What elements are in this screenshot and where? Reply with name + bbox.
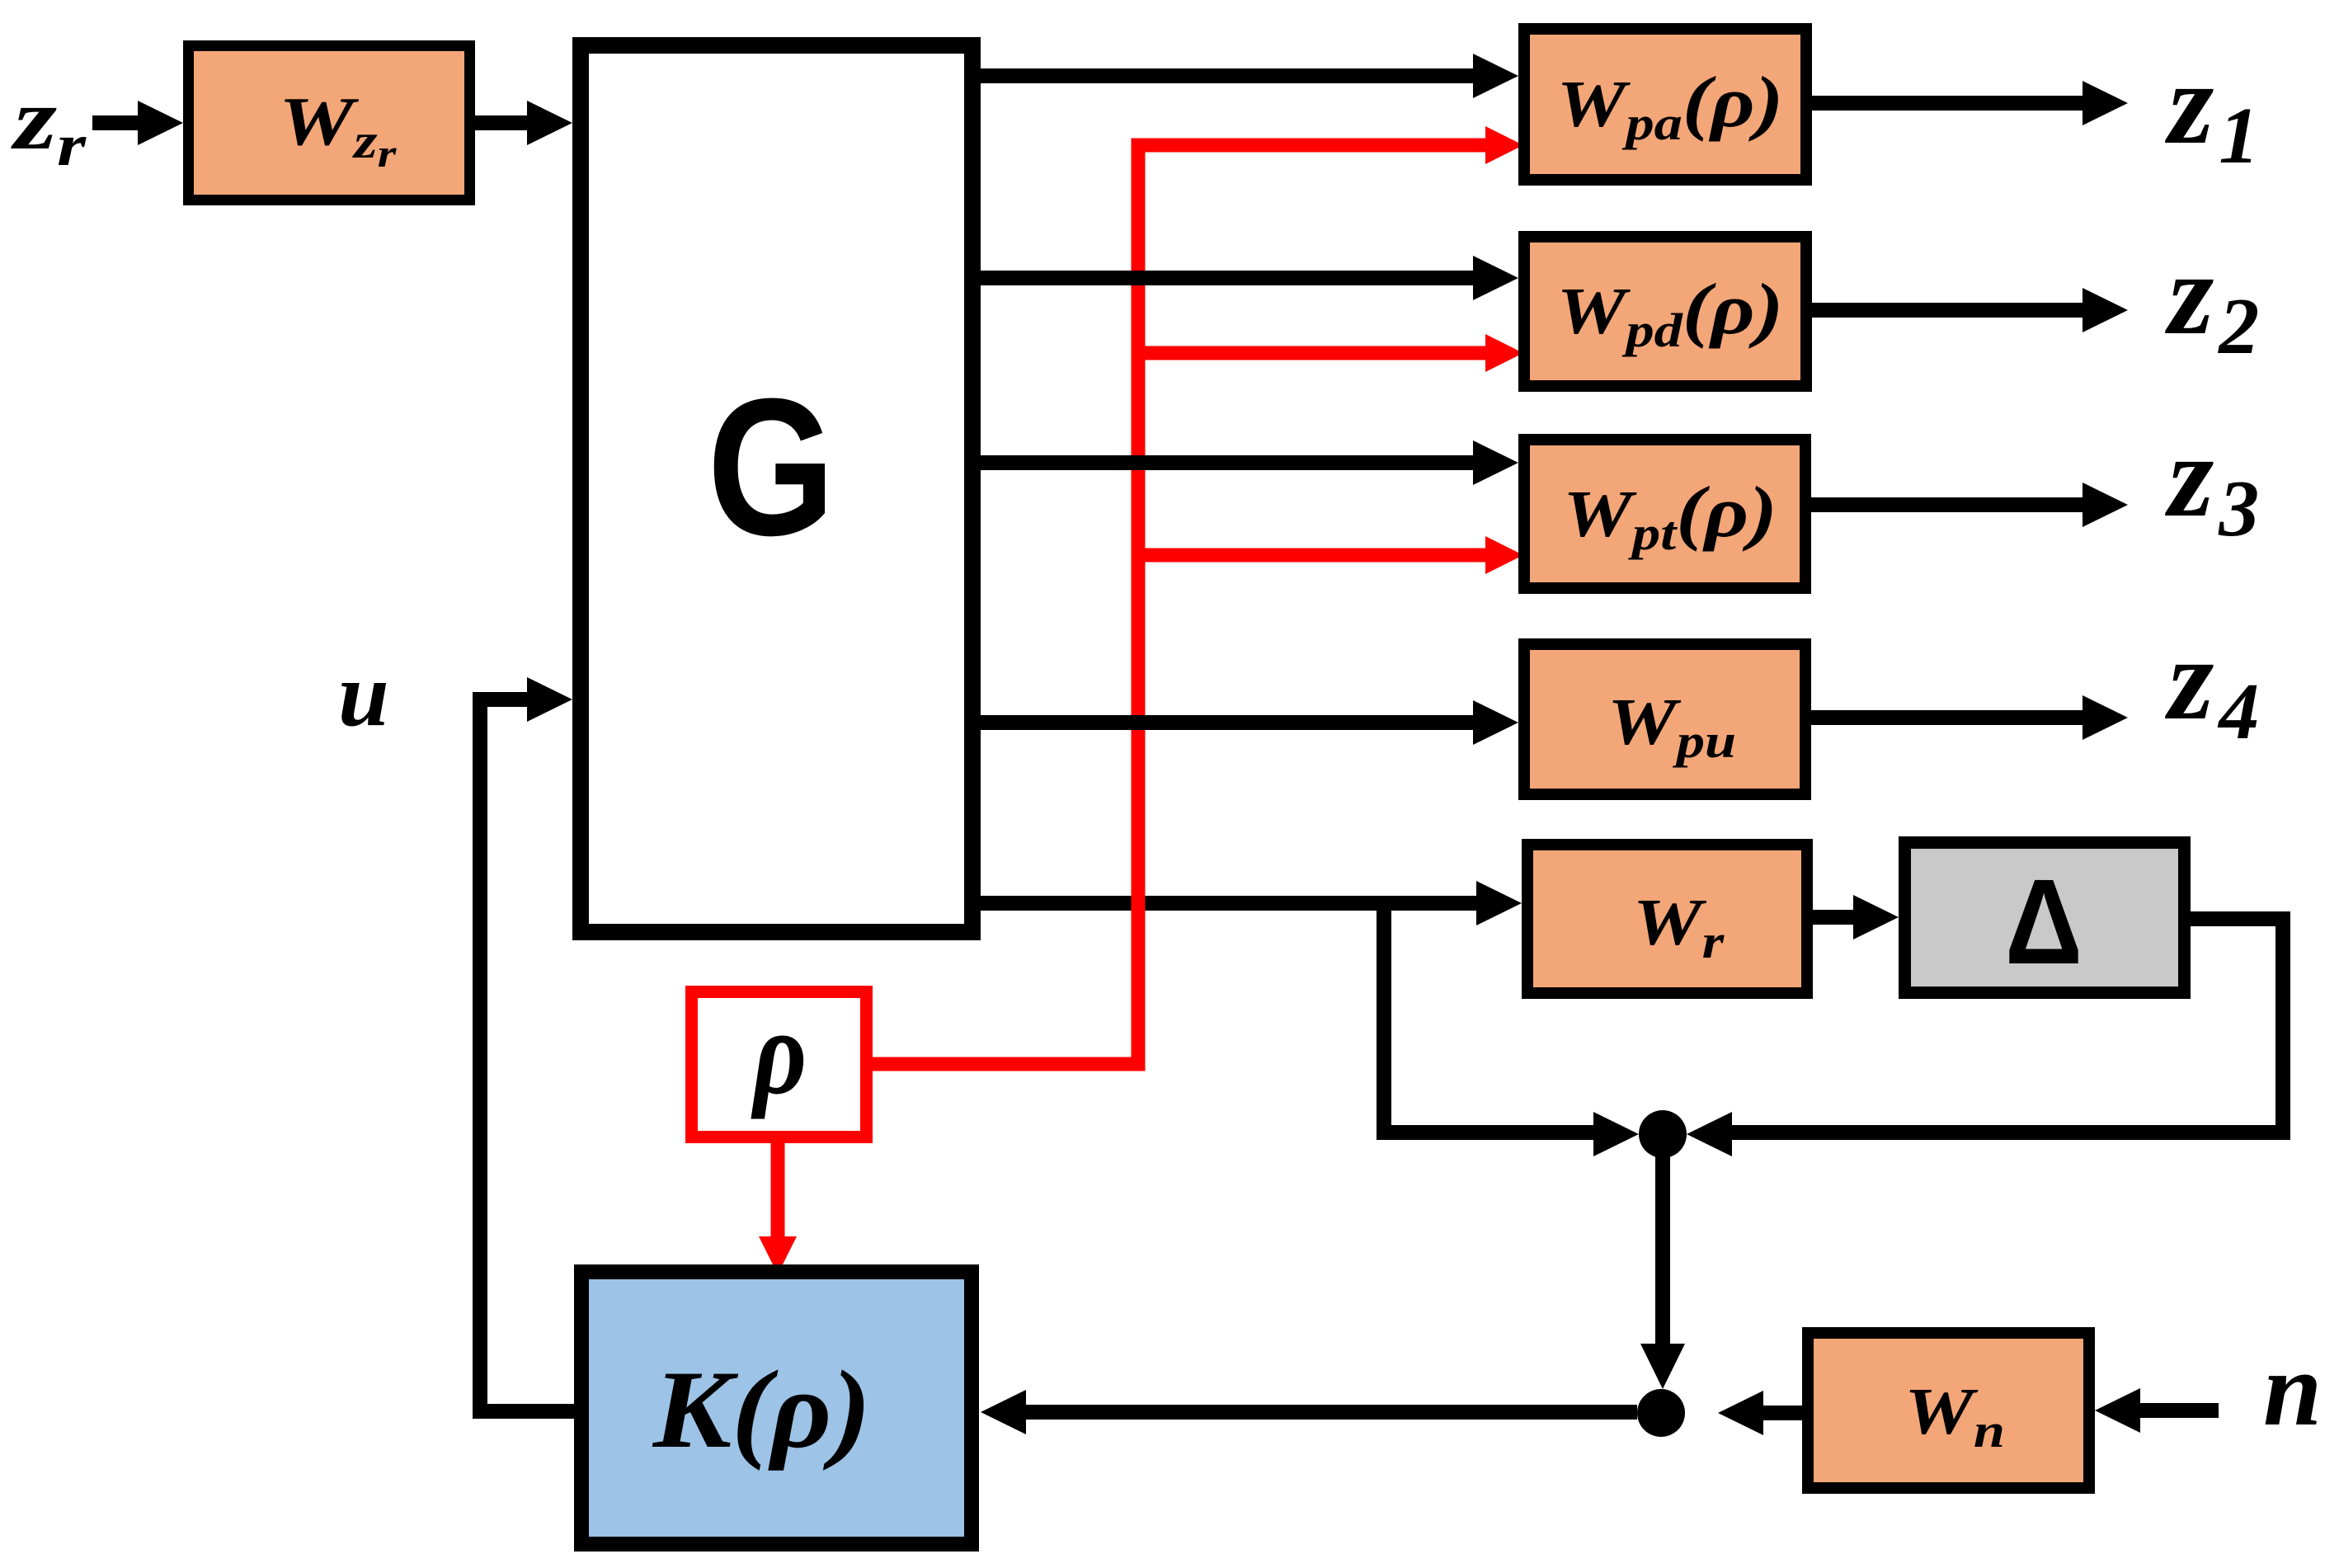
block Wr (1527, 845, 1807, 993)
svg-text:Δ: Δ (2005, 855, 2083, 990)
wire Wzr to G (475, 115, 534, 130)
wire junction node 2 to K right (1019, 1405, 1637, 1420)
arrowhead into Wpd black (1473, 256, 1518, 300)
junction node 1 (1639, 1110, 1687, 1158)
wire red branch to Wpt (1138, 549, 1485, 563)
wire Wpt output to z3 (1811, 497, 2090, 512)
arrowhead into Wzr (138, 101, 183, 145)
wire G output 1 to Wpa (981, 68, 1480, 83)
block G plant (581, 45, 972, 932)
red arrowhead into Wpd (1485, 334, 1523, 372)
wire G output 4 to Wpu (981, 715, 1480, 730)
svg-text:G: G (708, 359, 835, 577)
arrowhead z3 (2083, 483, 2128, 527)
block rho scheduling parameter (692, 985, 867, 1137)
signal label zr (11, 70, 87, 177)
wire Wr to Delta (1813, 910, 1862, 925)
block Delta uncertainty (1905, 843, 2185, 993)
wire Wn to junction node 2 (1755, 1406, 1802, 1420)
wire Wpa output to z1 (1812, 96, 2090, 111)
arrowhead into junction node 1 from right (1687, 1112, 1732, 1156)
block Wn (1808, 1333, 2089, 1488)
arrowhead z4 (2083, 695, 2128, 740)
block Wpd (1524, 237, 1806, 386)
arrowhead into Wpa black (1473, 54, 1518, 98)
arrowhead into junction node 2 from top (1640, 1344, 1685, 1389)
arrowhead into junction node 2 from right (1718, 1391, 1763, 1435)
svg-text:K(ρ): K(ρ) (652, 1349, 872, 1471)
block Wpa (1524, 29, 1806, 180)
wire Delta feedback right and down to junction node 1 (1725, 919, 2283, 1132)
arrowhead into Delta (1853, 895, 1899, 939)
red arrowhead into K top (759, 1236, 797, 1274)
wire red rho down to K (771, 1137, 785, 1241)
arrowhead z2 (2083, 288, 2128, 332)
svg-text:z3: z3 (2164, 411, 2259, 553)
wire G output 2 to Wpd (981, 271, 1480, 285)
arrowhead into G left for u (527, 677, 572, 722)
wire junction node 1 down to junction node 2 (1655, 1134, 1670, 1348)
wire red rho to vertical bus and top branch to Wpa (873, 145, 1485, 1064)
block Wpu (1524, 644, 1805, 794)
svg-text:z2: z2 (2164, 228, 2259, 371)
block K controller (581, 1272, 972, 1544)
arrowhead into Wn (2095, 1388, 2140, 1433)
wire branch from output 5 down to junction node 1 (1384, 903, 1598, 1132)
wire G output 3 to Wpt (981, 455, 1480, 470)
wire Wpd output to z2 (1812, 303, 2090, 318)
svg-text:n: n (2263, 1330, 2322, 1448)
wire red branch to Wpd (1138, 346, 1485, 360)
arrowhead into Wr black (1476, 881, 1522, 925)
arrowhead into Wpu black (1473, 700, 1518, 745)
wire u feedback from K left up into G (480, 699, 577, 1411)
junction node 2 (1637, 1389, 1685, 1437)
block Wzr (189, 46, 470, 200)
arrowhead into Wpt black (1473, 440, 1518, 485)
arrowhead into junction node 1 from left (1593, 1112, 1639, 1156)
wire Wpu output to z4 (1811, 710, 2090, 725)
wire n input to Wn (2133, 1403, 2219, 1418)
svg-text:z4: z4 (2164, 614, 2259, 756)
block Wpt (1524, 440, 1805, 588)
wire G output 5 to Wr (981, 896, 1484, 911)
svg-text:zr: zr (11, 70, 87, 177)
arrowhead into K right (981, 1390, 1026, 1434)
svg-text:ρ: ρ (751, 985, 807, 1120)
svg-text:z1: z1 (2164, 38, 2259, 181)
red arrowhead into Wpa (1485, 126, 1523, 164)
svg-text:u: u (338, 644, 389, 746)
red arrowhead into Wpt (1485, 536, 1523, 574)
arrowhead z1 (2083, 81, 2128, 125)
arrowhead into G left for zr path (527, 101, 572, 145)
wire zr input arrow (92, 115, 142, 130)
